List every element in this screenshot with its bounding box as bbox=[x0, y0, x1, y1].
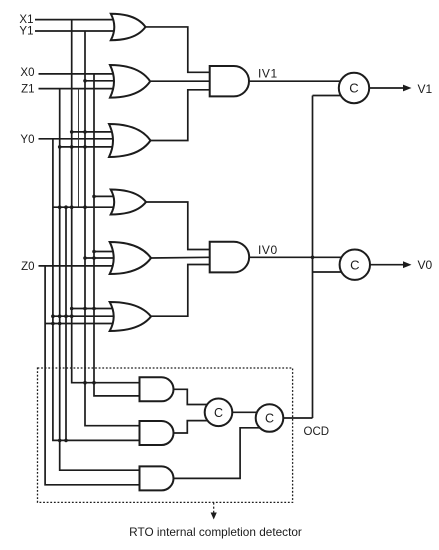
junction dots OR5 mid bbox=[83, 256, 87, 260]
wire OR5 middle input bbox=[85, 257, 115, 259]
wire OR4 top input bbox=[94, 195, 116, 197]
bus column c2 (Z1 tap) bbox=[60, 89, 140, 471]
wire C4 output to OCD corner bbox=[283, 417, 312, 419]
wire Y1 bbox=[35, 30, 116, 32]
junction dots AND-B bottom bbox=[58, 439, 62, 443]
wire X0 bbox=[39, 73, 116, 75]
svg-text:C: C bbox=[350, 257, 359, 272]
wire IV0 to C2 bbox=[249, 256, 342, 258]
or-gate OR1 bbox=[111, 14, 146, 41]
bus column c3 bbox=[65, 207, 67, 440]
wire OR6 bottom input bbox=[45, 323, 115, 325]
c-element C3 bbox=[205, 399, 233, 427]
junction dots OR3 bottom bbox=[58, 145, 62, 149]
bus column c5 (thin) bbox=[78, 89, 80, 208]
or-gate OR4 bbox=[111, 190, 146, 215]
svg-text:C: C bbox=[349, 81, 358, 96]
wire Z1 bbox=[39, 88, 116, 90]
wire OR6 middle input bbox=[53, 315, 115, 317]
and-gate AND-A bbox=[140, 377, 174, 401]
wire OR2 middle input bbox=[85, 80, 115, 82]
wire C2 output arrow to V0 bbox=[370, 264, 405, 266]
svg-text:IV1: IV1 bbox=[258, 67, 278, 81]
wire X1 bbox=[35, 19, 116, 21]
wire IV1 to C1 bbox=[249, 80, 340, 82]
dashed arrow below box bbox=[213, 502, 215, 514]
wire AND-A output to C3 bbox=[174, 389, 208, 404]
wire OR6 top input bbox=[72, 308, 115, 310]
bus column c1 (Y0 tap) bbox=[53, 139, 140, 441]
junction dot IV0/OCD bbox=[311, 255, 315, 259]
svg-text:V0: V0 bbox=[418, 258, 433, 272]
dashed box RTO detector bbox=[38, 368, 293, 502]
wire OR4 bottom input bbox=[53, 206, 116, 208]
or-gate OR5 bbox=[110, 242, 151, 274]
junction dots AND-A top bbox=[83, 381, 87, 385]
wire OR3 top input bbox=[72, 131, 114, 133]
and-gate AND1 (IV1) bbox=[210, 66, 249, 96]
wire C1 output arrow to V1 bbox=[369, 87, 404, 89]
and-gate AND2 (IV0) bbox=[210, 242, 249, 273]
or-gate OR3 bbox=[109, 124, 151, 157]
wire OR6 output to AND2 bottom bbox=[151, 265, 210, 317]
svg-text:Y0: Y0 bbox=[20, 134, 34, 146]
wire AND-C output to C4 bbox=[174, 428, 260, 479]
wire OCD stub to C2 bbox=[313, 271, 342, 273]
wire OR2 output to AND1 middle bbox=[151, 80, 210, 82]
svg-text:OCD: OCD bbox=[304, 426, 330, 438]
svg-text:C: C bbox=[265, 412, 274, 426]
svg-text:IV0: IV0 bbox=[258, 243, 278, 257]
and-gate AND-B bbox=[140, 421, 174, 445]
svg-text:RTO internal completion detect: RTO internal completion detector bbox=[129, 525, 302, 539]
wire OCD stub to C1 bbox=[313, 95, 341, 97]
svg-text:X0: X0 bbox=[20, 67, 34, 79]
svg-text:Z0: Z0 bbox=[21, 261, 34, 273]
and-gate AND-C bbox=[140, 466, 174, 490]
junction dots OR6 mid bbox=[51, 314, 55, 318]
junction dots OR3 top bbox=[70, 130, 74, 134]
junction dots OR6 bottom bbox=[51, 322, 55, 326]
c-element C2 bbox=[340, 250, 370, 280]
junction dots OR6 top bbox=[70, 307, 74, 311]
or-gate OR2 bbox=[110, 65, 150, 98]
wire OR4 output to AND2 top bbox=[146, 202, 210, 250]
bus column c6 (Y1 tap) bbox=[85, 31, 140, 426]
wire OR5 top input bbox=[94, 251, 115, 253]
wire OR3 output to AND1 bottom bbox=[151, 90, 210, 141]
junction dot OR4 top bbox=[92, 195, 96, 199]
junction dot OR5 top bbox=[92, 250, 96, 254]
junction dots OR4 bottom bbox=[58, 205, 62, 209]
bus column c4 (X1 tap) bbox=[72, 20, 140, 383]
wire OR1 output to AND1 top bbox=[146, 27, 210, 72]
wire OCD vertical bbox=[312, 96, 314, 419]
c-element C4 bbox=[256, 404, 284, 432]
junction dot OR2 mid bbox=[83, 79, 87, 83]
bus column c7 (X0 tap) bbox=[94, 74, 140, 396]
svg-text:C: C bbox=[214, 406, 223, 420]
wire OR5 output to AND2 middle bbox=[151, 256, 210, 259]
svg-text:V1: V1 bbox=[418, 82, 433, 96]
wire AND-B output to C3 bbox=[174, 421, 208, 433]
wire C3 to C4 bbox=[232, 411, 257, 413]
or-gate OR6 bbox=[110, 302, 151, 331]
wire Z0 bbox=[39, 265, 115, 267]
c-element C1 bbox=[339, 73, 369, 103]
wire Y0 bbox=[39, 138, 115, 140]
svg-text:Y1: Y1 bbox=[19, 25, 33, 37]
wire OR3 bottom input bbox=[60, 146, 114, 148]
svg-text:Z1: Z1 bbox=[21, 84, 34, 96]
bus column c0 (Z0 tap) bbox=[45, 266, 139, 485]
